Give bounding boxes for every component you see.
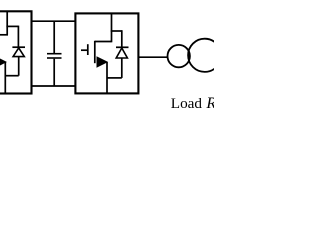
Q1 channel-connect wire (runs off left edge) <box>0 34 8 36</box>
wire: Q1 emitter-diode junction <box>5 75 18 77</box>
wire: Q2 collector connect <box>95 41 112 43</box>
diode D2 bottom lead <box>121 58 123 78</box>
wire: DC bus top <box>31 20 75 22</box>
converter block box B2 (right) <box>75 13 138 93</box>
IGBT Q1 collector lead <box>6 12 8 35</box>
diode D1 bottom lead <box>18 57 20 76</box>
diode D2 cathode bar <box>116 46 129 48</box>
diode D2 triangle <box>116 48 127 58</box>
IGBT Q2 collector lead <box>111 14 113 43</box>
IGBT Q2 channel bar <box>94 41 96 63</box>
IGBT Q1 emitter arrow <box>0 57 6 67</box>
converter block box B1 (left, cut off at image edge) <box>0 11 32 93</box>
capacitor C1 top lead <box>53 21 55 53</box>
diode D2 top lead <box>121 30 123 47</box>
capacitor C1 bottom lead <box>53 59 55 86</box>
diode D1 cathode bar <box>12 46 25 48</box>
IGBT Q1 emitter lead <box>4 62 6 94</box>
wire: DC bus bottom <box>31 85 75 87</box>
IGBT Q2 gate lead <box>81 49 88 51</box>
capacitor C1 top plate <box>47 53 62 55</box>
wire: Q2 emitter-diode junction <box>107 77 122 79</box>
IGBT Q2 emitter lead <box>106 62 108 93</box>
IGBT Q2 emitter arrow <box>97 57 107 67</box>
transformer T1 primary circle <box>168 45 190 67</box>
transformer T1 secondary circle <box>188 39 221 72</box>
IGBT Q2 gate bar <box>87 44 89 55</box>
capacitor C1 bottom plate <box>47 57 62 59</box>
svg-text:Load R: Load R <box>171 94 214 112</box>
wire: Q1 diode branch <box>6 25 18 27</box>
diode D1 triangle <box>13 48 24 57</box>
wire: output to transformer <box>138 56 167 58</box>
diode D1 top lead <box>17 26 19 47</box>
wire: Q2 diode branch <box>111 30 122 32</box>
